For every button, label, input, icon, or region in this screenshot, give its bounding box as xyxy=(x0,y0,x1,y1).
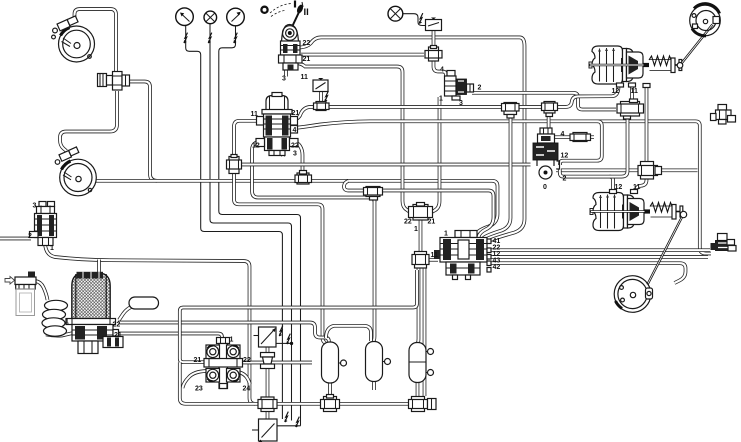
pipe sensor B1 stem xyxy=(432,31,436,48)
protection valve V3 xyxy=(445,71,474,101)
warning lamp gauge 2 xyxy=(204,11,217,24)
pipe brake valve port12 U-line xyxy=(252,141,375,202)
fitting F6 xyxy=(295,171,312,185)
pipe H15 from F5 to F3 xyxy=(240,163,531,167)
pipe sensor B2 stem to F4 xyxy=(319,92,323,104)
hand brake valve xyxy=(270,2,304,70)
pipe brake valve port3 stub xyxy=(281,151,285,157)
wire lamp to sensor box xyxy=(403,14,426,26)
sensor box B3 xyxy=(254,327,277,347)
pipe brake valve port22 down to F6 xyxy=(290,141,303,174)
wire sensor B3 to junction xyxy=(276,342,292,344)
sensor box B4 xyxy=(252,419,277,442)
pipe F8 stem down to F9 xyxy=(419,220,423,252)
marker I tick xyxy=(294,1,296,8)
fitting F11 xyxy=(321,395,340,412)
svg-text:1: 1 xyxy=(65,319,69,326)
pipe filter to coil link xyxy=(36,281,48,300)
svg-text:21: 21 xyxy=(194,357,202,364)
svg-text:11: 11 xyxy=(301,74,309,81)
pipe brake valve port11 to F5 and down xyxy=(234,121,326,343)
front brake chamber Q1 xyxy=(98,72,130,91)
wire sensor B4 to junction xyxy=(277,425,301,427)
svg-text:3: 3 xyxy=(459,100,463,107)
fitting F3 xyxy=(617,99,644,119)
svg-text:22: 22 xyxy=(243,357,251,364)
svg-text:1: 1 xyxy=(50,245,54,252)
svg-text:4: 4 xyxy=(561,131,565,138)
wire gauge2 drop xyxy=(210,24,292,421)
chamber2 port 12 flange xyxy=(610,190,617,194)
svg-text:22: 22 xyxy=(113,322,121,329)
pipe T2 stem down to trailer valve V4 xyxy=(483,116,511,239)
svg-text:11: 11 xyxy=(633,184,641,191)
svg-text:4: 4 xyxy=(293,127,297,134)
svg-text:2: 2 xyxy=(28,233,32,240)
reservoir R2 xyxy=(366,342,391,382)
marker O ring xyxy=(261,7,267,13)
pipe drum1 to front chamber Q1 xyxy=(75,9,117,71)
pipe silencer elbow to dryer xyxy=(119,307,131,320)
svg-text:21: 21 xyxy=(292,110,300,117)
svg-text:12: 12 xyxy=(615,184,623,191)
svg-text:11: 11 xyxy=(631,88,639,95)
pressure regulator V2 xyxy=(533,128,560,179)
chamber2 port 11 flange xyxy=(631,190,638,194)
svg-text:2: 2 xyxy=(478,85,482,92)
pipe coil to dryer link xyxy=(46,333,73,336)
pipe hand valve port22 long line H2 xyxy=(300,37,525,241)
pipe V7 port24 elbow xyxy=(233,371,250,384)
pipe F10 stem to B4 xyxy=(266,412,270,419)
brake drum rear-right bottom (drum4) xyxy=(614,276,652,313)
svg-text:12: 12 xyxy=(252,143,260,150)
fitting F10 xyxy=(258,397,277,412)
pressure gauge 1 xyxy=(176,8,194,26)
pipe chamber1 port11 stem xyxy=(630,84,634,102)
spring brake chamber 1 xyxy=(589,46,683,84)
pipe hand valve port3 stub xyxy=(284,70,288,77)
pipe compressor heavy discharge line xyxy=(45,242,255,404)
fitting F8 xyxy=(409,203,433,221)
sensor box B2 xyxy=(313,78,328,92)
pipe F9 to trailer valve port11 xyxy=(427,258,438,262)
fitting F12 xyxy=(409,397,437,412)
svg-text:21: 21 xyxy=(428,219,436,226)
fitting T2b xyxy=(542,102,558,117)
pipe V3 port1 down to F8 xyxy=(431,97,440,213)
svg-text:11: 11 xyxy=(431,252,439,259)
four-circuit protection valve V7 xyxy=(204,338,243,389)
lightning bolt B2 xyxy=(325,91,329,101)
pipe chamber1 spring port through F1 to chamber2 port11 xyxy=(636,85,647,192)
svg-text:12: 12 xyxy=(561,153,569,160)
pipe Q1 down-left to drum2 cam xyxy=(60,91,117,151)
pipe F9 drop to reservoir R3 xyxy=(418,268,419,344)
pipe reservoir R1 to R2 top bridge xyxy=(326,326,371,341)
svg-text:12: 12 xyxy=(612,88,620,95)
brake drum front-left #2 xyxy=(55,147,96,196)
fitting T2 xyxy=(502,103,520,119)
pipe Q1 right down to front axle line xyxy=(130,82,157,181)
brake drum rear-right top (drum3) xyxy=(690,4,721,36)
pipe front axle line H13 xyxy=(96,181,498,237)
pipe trailer valve port22 line xyxy=(487,248,710,252)
svg-text:21: 21 xyxy=(303,56,311,63)
lightning bolts B3 xyxy=(279,326,283,336)
svg-text:2: 2 xyxy=(563,176,567,183)
air intake filter xyxy=(5,272,36,316)
svg-text:22: 22 xyxy=(303,40,311,47)
lightning bolt gauge2 xyxy=(208,33,212,43)
pipe V7 port22 to fitting V8 xyxy=(240,361,312,365)
pipe R2 bottom stub xyxy=(372,382,376,391)
svg-text:22: 22 xyxy=(404,219,412,226)
pipe regulator H10 to F1 and chamber2 port11 xyxy=(552,135,594,139)
lightning bolt gauge1 xyxy=(184,33,188,43)
chamber1 port 12 flange xyxy=(617,83,624,87)
pipe hand valve port21 line H3 xyxy=(301,53,424,57)
wire gauge3 drop xyxy=(219,26,301,426)
pressure gauge 3 xyxy=(227,8,245,26)
pipe F9 drop to fitting F12 xyxy=(423,268,427,396)
air dryer xyxy=(66,272,123,354)
svg-text:1: 1 xyxy=(444,231,448,238)
fitting F4 xyxy=(314,102,330,111)
lightning bolt lamp wire xyxy=(419,13,423,23)
svg-text:21: 21 xyxy=(114,332,122,339)
svg-text:0: 0 xyxy=(543,184,547,191)
warning lamp top right xyxy=(388,6,403,21)
two-section brake valve V1 xyxy=(256,93,298,156)
pipe B3 stem to V8 xyxy=(266,347,270,353)
svg-text:1: 1 xyxy=(230,337,234,344)
svg-text:24: 24 xyxy=(243,386,251,393)
reservoir R1 xyxy=(322,342,347,383)
shut-off valve with coupling V5 xyxy=(711,234,737,252)
lightning bolts B4 xyxy=(285,412,289,422)
slack rod chamber2 to drum4 xyxy=(648,211,687,284)
regeneration coil xyxy=(42,300,68,336)
pipe chamber2 port12 to H12 xyxy=(610,177,614,192)
pipe V7 port21 riser to y307 line and F9 xyxy=(180,270,417,362)
compressor xyxy=(30,202,57,246)
pipe dryer port21 to V7 inlet xyxy=(118,334,222,342)
pipe H12 regulator to F1 xyxy=(556,168,698,172)
pipe V7 port23 to bottom line xyxy=(183,371,207,388)
svg-text:3: 3 xyxy=(282,76,286,83)
fitting F9 xyxy=(412,252,429,269)
svg-text:11: 11 xyxy=(251,111,259,118)
slack rod chamber1 to drum3 xyxy=(677,25,712,69)
chamber1 port 11 flange xyxy=(629,83,636,87)
pipe dryer port22 to reservoir R1 xyxy=(118,323,329,342)
pipe trailer valve port43 line xyxy=(487,263,686,283)
pipe engine line to compressor xyxy=(0,237,31,241)
pipe R1 stem to F11 xyxy=(328,383,332,398)
pipe brake valve port21 line H7 and chamber1 port12 xyxy=(290,86,619,121)
silencer capsule xyxy=(129,297,159,309)
pipe T2b stem to regulator top xyxy=(547,113,551,128)
trailer control valve V4 xyxy=(434,231,491,280)
pipe dryer top riser xyxy=(97,260,101,275)
pressure sensor B1 xyxy=(426,18,442,31)
wire gauge1 drop xyxy=(186,26,283,419)
pipe loop H9 down to regulator port xyxy=(560,121,602,165)
coupling valve V6 xyxy=(711,105,736,125)
pipe riser bottom to main drain line xyxy=(180,362,434,404)
svg-text:4: 4 xyxy=(440,67,444,74)
brake drum front-left #1 xyxy=(52,16,95,62)
pipe brake valve port4 line H9 to V6 xyxy=(290,121,711,253)
svg-text:42: 42 xyxy=(493,264,501,271)
svg-text:II: II xyxy=(304,7,309,18)
drain valve V8 xyxy=(261,353,275,369)
svg-text:3: 3 xyxy=(33,203,37,210)
fitting T on H14 xyxy=(364,187,383,201)
spring brake chamber 2 xyxy=(590,193,684,231)
pipe R3 stem to F12 xyxy=(416,383,420,397)
pipe trailer valve port12 line xyxy=(487,255,708,259)
svg-text:3: 3 xyxy=(293,151,297,158)
lightning bolt gauge3 xyxy=(234,33,238,43)
svg-text:1: 1 xyxy=(439,96,443,103)
chamber1 spring port flange xyxy=(643,84,650,88)
pipe hand valve lower port to F8 xyxy=(296,63,412,213)
pipe F2 down to valve V3 xyxy=(434,61,447,77)
fitting F1 xyxy=(638,162,662,180)
pipe F3 down to regulator port2 line xyxy=(560,119,628,177)
fitting F2 xyxy=(425,46,442,62)
pipe T down to U junction xyxy=(373,199,375,342)
pipe V8 stem to F10 xyxy=(266,369,270,399)
pipe T-H14 line xyxy=(344,181,494,237)
fitting F5 xyxy=(227,155,242,174)
svg-text:1: 1 xyxy=(414,226,418,233)
junction dot B3 wire xyxy=(290,342,293,345)
fitting F7 xyxy=(570,133,591,142)
pipe V3 port2 to F3 xyxy=(472,93,616,110)
svg-text:23: 23 xyxy=(195,386,203,393)
svg-text:22: 22 xyxy=(291,143,299,150)
reservoir R3 xyxy=(409,343,434,383)
